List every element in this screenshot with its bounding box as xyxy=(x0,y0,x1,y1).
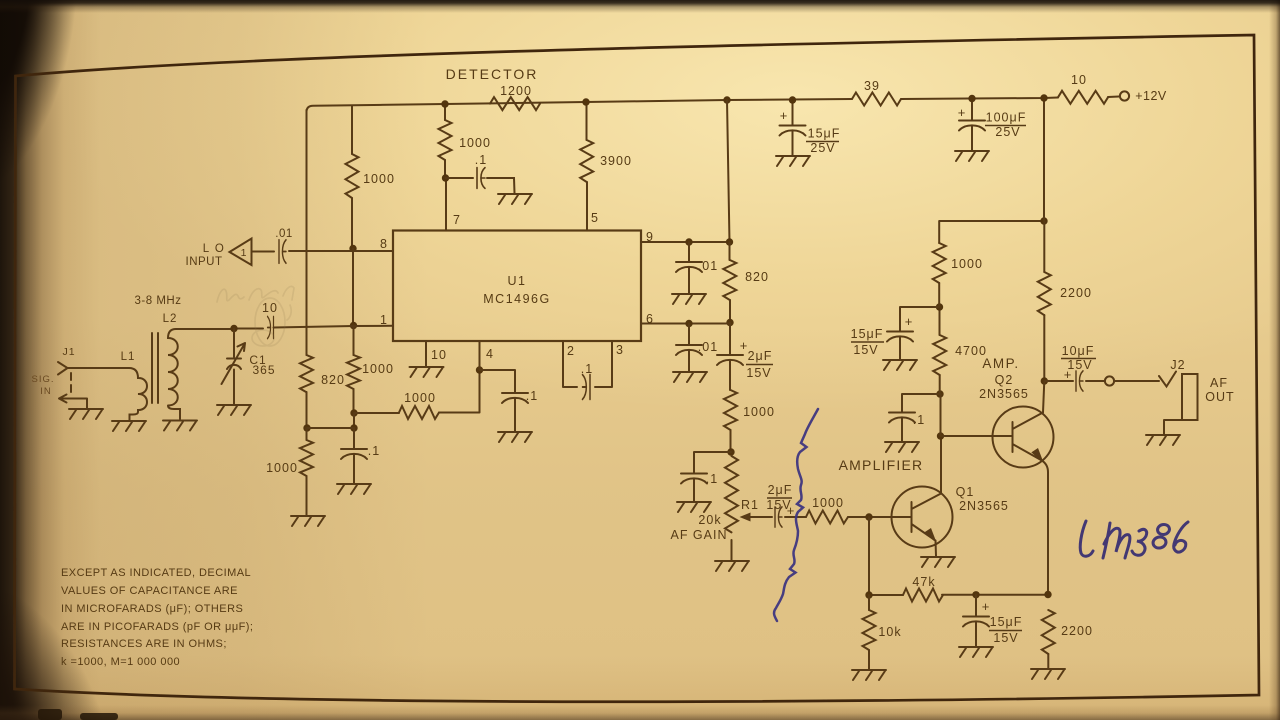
svg-text:2μF: 2μF xyxy=(768,483,793,497)
svg-text:+: + xyxy=(787,503,796,518)
capacitor .1 (pin 7 bypass) xyxy=(477,168,485,189)
node xyxy=(968,95,975,102)
wire to pin 8 xyxy=(289,250,393,252)
svg-text:+: + xyxy=(958,105,967,120)
wire pin 2 / pin 3 bracket xyxy=(563,341,612,387)
pencil annotations (faint) xyxy=(217,286,294,346)
svg-text:.1: .1 xyxy=(706,472,718,486)
node xyxy=(789,96,796,103)
svg-text:820: 820 xyxy=(321,373,345,387)
svg-text:RESISTANCES ARE IN OHMS;: RESISTANCES ARE IN OHMS; xyxy=(61,638,227,650)
resistor 10 xyxy=(1058,91,1108,104)
wire pin4 xyxy=(480,341,516,393)
capacitor .01 (LO coupling) xyxy=(279,240,286,263)
svg-text:6: 6 xyxy=(646,312,654,326)
node xyxy=(865,591,872,598)
svg-text:L2: L2 xyxy=(163,313,178,325)
svg-text:.01: .01 xyxy=(275,228,293,240)
capacitor .1 (Q1 collector) xyxy=(889,413,915,423)
capacitor .01 (pin 9 bypass) xyxy=(676,262,702,272)
wire to .1 cap xyxy=(694,452,731,473)
svg-text:AMPLIFIER: AMPLIFIER xyxy=(839,457,924,473)
wire: bus drop to detector bias column xyxy=(306,110,308,355)
wire to .1 cap xyxy=(446,177,474,179)
ground (Q1 emitter) xyxy=(921,557,955,567)
triangle LO input buffer xyxy=(230,239,252,266)
op-amp U1 MC1496G box xyxy=(393,231,641,342)
svg-text:R1: R1 xyxy=(741,498,759,512)
svg-text:10: 10 xyxy=(1071,73,1087,87)
svg-text:1000: 1000 xyxy=(266,461,298,475)
wire to .1 (Q1 collector bypass) xyxy=(902,394,940,412)
svg-text:47k: 47k xyxy=(912,575,935,589)
wire: bus to pin 8 column xyxy=(351,106,353,248)
ground xyxy=(955,151,989,161)
svg-text:+: + xyxy=(982,599,991,614)
svg-text:100μF: 100μF xyxy=(986,111,1027,125)
node xyxy=(350,322,357,329)
node xyxy=(685,320,692,327)
capacitor C1 365 variable xyxy=(227,329,241,405)
svg-text:25V: 25V xyxy=(995,125,1020,139)
wire Q2 collector to 10uF xyxy=(1044,380,1073,382)
resistor 1000 (horizontal to pin 4) xyxy=(399,406,439,419)
node xyxy=(582,98,589,105)
wire Q2 base xyxy=(941,435,1013,437)
svg-text:1000: 1000 xyxy=(404,391,436,405)
node 4700 bottom xyxy=(936,390,943,397)
node xyxy=(350,424,357,431)
resistor 2200 (Q2 emitter) xyxy=(1042,610,1055,654)
wire pin 10 xyxy=(425,341,427,366)
wire to Q1 base xyxy=(848,516,911,518)
node Q2 collector xyxy=(1041,377,1048,384)
svg-text:ARE IN PICOFARADS (pF OR μμF);: ARE IN PICOFARADS (pF OR μμF); xyxy=(61,621,253,633)
svg-text:IN MICROFARADS (μF); OTHERS: IN MICROFARADS (μF); OTHERS xyxy=(61,603,243,615)
svg-text:L O: L O xyxy=(203,243,226,255)
ground xyxy=(883,360,917,370)
wire to 15uF xyxy=(900,307,940,331)
ground xyxy=(677,502,711,512)
svg-text:1000: 1000 xyxy=(362,362,394,376)
wire pin 6 xyxy=(641,323,730,325)
svg-text:39: 39 xyxy=(864,79,880,93)
node pin4 xyxy=(476,366,483,373)
ground (J1) xyxy=(69,409,103,419)
svg-text:J2: J2 xyxy=(1170,358,1185,372)
svg-text:AMP.: AMP. xyxy=(982,356,1019,371)
C1 arrow xyxy=(222,343,246,384)
resistor 820 (pin 9) xyxy=(723,260,736,300)
svg-text:1: 1 xyxy=(380,313,388,327)
svg-text:SIG.: SIG. xyxy=(31,374,54,385)
svg-text:10μF: 10μF xyxy=(1062,344,1095,358)
svg-text:.1: .1 xyxy=(368,444,380,458)
resistor 47k (feedback) xyxy=(903,589,943,602)
resistor 1000 (pin 7 bias) xyxy=(439,120,452,160)
transistor Q1 2N3565 xyxy=(892,487,953,548)
svg-text:820: 820 xyxy=(745,270,769,284)
resistor 1000 (pin1 to AF node) xyxy=(347,355,360,389)
ground xyxy=(959,647,993,657)
node pin6 xyxy=(726,319,733,326)
svg-text:15μF: 15μF xyxy=(990,615,1023,629)
svg-text:IN: IN xyxy=(40,386,52,397)
svg-text:3900: 3900 xyxy=(600,154,632,168)
wire 47k row xyxy=(869,594,1048,596)
capacitor 10uF 15V (output coupling) xyxy=(1076,371,1083,391)
ground xyxy=(673,372,707,382)
capacitor 2uF 15V (AF coupling) xyxy=(717,355,743,365)
svg-text:1200: 1200 xyxy=(500,84,532,98)
svg-text:7: 7 xyxy=(453,213,461,227)
resistor 820 (detector left bias) xyxy=(300,355,313,392)
wire xyxy=(307,427,354,429)
svg-text:1: 1 xyxy=(241,247,248,259)
svg-text:.1: .1 xyxy=(913,413,925,427)
node xyxy=(1044,591,1051,598)
wire xyxy=(1086,380,1104,382)
svg-text:L1: L1 xyxy=(121,351,136,363)
terminal (output) xyxy=(1105,376,1114,385)
svg-text:MC1496G: MC1496G xyxy=(483,292,550,306)
wire bus drop to amp supply xyxy=(1043,98,1045,221)
inductor L2 secondary xyxy=(168,329,180,419)
node xyxy=(972,591,979,598)
transistor Q2 2N3565 xyxy=(993,407,1054,468)
svg-text:365: 365 xyxy=(252,363,275,377)
R1 wiper arrow xyxy=(749,516,772,518)
handwritten LM386 xyxy=(1080,521,1188,558)
svg-text:15μF: 15μF xyxy=(851,327,884,341)
node C1 xyxy=(230,325,237,332)
bottom page edge marks xyxy=(38,709,118,720)
resistor 1200 (detector load) xyxy=(490,97,540,110)
wire xyxy=(354,370,480,413)
svg-text:1000: 1000 xyxy=(951,257,983,271)
svg-text:.1: .1 xyxy=(526,389,538,403)
svg-text:15V: 15V xyxy=(746,366,771,380)
schematic note text xyxy=(61,567,253,668)
svg-text:EXCEPT AS INDICATED, DECIMAL: EXCEPT AS INDICATED, DECIMAL xyxy=(61,567,251,579)
wire xyxy=(307,392,355,428)
capacitor .1 (pin 4 bypass) xyxy=(502,393,528,403)
ground (2200) xyxy=(1031,669,1065,679)
node Q1 collector / Q2 base xyxy=(937,432,944,439)
svg-text:4: 4 xyxy=(486,347,494,361)
svg-text:Q2: Q2 xyxy=(995,373,1014,387)
svg-text:5: 5 xyxy=(591,211,599,225)
potentiometer R1 20k AF GAIN xyxy=(725,456,738,532)
resistor 1000 (bus to pin8) xyxy=(346,154,359,198)
svg-text:10k: 10k xyxy=(878,625,901,639)
ground (J2) xyxy=(1146,435,1180,445)
node xyxy=(349,245,356,252)
jack J1 sleeve dashed xyxy=(70,373,72,395)
svg-text:15V: 15V xyxy=(853,343,878,357)
ground (R1) xyxy=(715,561,749,571)
capacitor 100uF 25V (supply filter) xyxy=(959,121,985,131)
resistor 1000 (decoupling feed) xyxy=(933,243,946,283)
ground xyxy=(672,294,706,304)
ground xyxy=(498,432,532,442)
wire pin 7 xyxy=(445,160,446,231)
svg-text:2μF: 2μF xyxy=(748,349,773,363)
svg-text:2N3565: 2N3565 xyxy=(959,499,1009,513)
svg-text:.1: .1 xyxy=(475,153,487,167)
svg-text:.01: .01 xyxy=(698,340,718,354)
svg-text:Q1: Q1 xyxy=(956,485,975,499)
ground xyxy=(498,194,532,204)
svg-text:25V: 25V xyxy=(810,141,835,155)
svg-text:.01: .01 xyxy=(698,259,718,273)
wire pin 9 xyxy=(641,241,730,243)
svg-text:8: 8 xyxy=(380,237,388,251)
node R1 top xyxy=(727,448,734,455)
jack J2 tip contact xyxy=(1159,372,1176,387)
svg-text:3-8 MHz: 3-8 MHz xyxy=(135,295,182,307)
wire pin 1 row xyxy=(274,326,394,328)
wire Q1 base node down xyxy=(868,517,870,595)
svg-text:J1: J1 xyxy=(62,346,75,358)
terminal +12V xyxy=(1120,91,1129,100)
svg-text:3: 3 xyxy=(616,343,624,357)
ground (pin 10) xyxy=(410,367,444,377)
svg-text:+12V: +12V xyxy=(1135,89,1167,103)
capacitor .01 (pin 6 bypass) xyxy=(676,345,702,355)
jack J1 sleeve arrow xyxy=(59,395,87,409)
svg-text:AF GAIN: AF GAIN xyxy=(670,528,727,542)
svg-text:15V: 15V xyxy=(993,631,1018,645)
capacitor 15uF 15V (emitter bypass) xyxy=(963,617,989,627)
svg-text:10: 10 xyxy=(262,301,278,315)
wire: +12V supply bus (top) xyxy=(307,97,1120,113)
svg-text:2: 2 xyxy=(567,344,575,358)
node xyxy=(685,238,692,245)
resistor 3900 xyxy=(580,140,593,182)
capacitor .1 (left AF bypass) xyxy=(341,449,367,459)
svg-text:1000: 1000 xyxy=(363,172,395,186)
node xyxy=(441,100,448,107)
svg-text:+: + xyxy=(1064,367,1073,382)
wire bus down to pin 9 xyxy=(727,100,730,242)
capacitor 15uF 25V (supply filter) xyxy=(780,126,806,136)
svg-text:+: + xyxy=(780,108,789,123)
svg-text:INPUT: INPUT xyxy=(186,256,223,268)
svg-text:15μF: 15μF xyxy=(808,127,841,141)
svg-text:1000: 1000 xyxy=(743,405,775,419)
ground (L2) xyxy=(163,421,197,431)
node xyxy=(303,424,310,431)
svg-text:1000: 1000 xyxy=(459,136,491,150)
node xyxy=(350,409,357,416)
jack J2 sleeve wire xyxy=(1164,420,1182,434)
resistor 2200 (Q2 collector load) xyxy=(1038,272,1051,315)
capacitor 2uF 15V (AF gain coupling) xyxy=(775,507,782,527)
inductor L1 primary xyxy=(67,368,147,420)
wire LO input xyxy=(252,251,275,253)
svg-text:DETECTOR: DETECTOR xyxy=(446,66,539,82)
svg-text:2200: 2200 xyxy=(1060,286,1092,300)
handwritten blue squiggle xyxy=(774,409,818,621)
svg-text:.1: .1 xyxy=(581,362,593,376)
resistor 10k (bias) xyxy=(863,610,876,650)
resistor 1000 (to ground, left) xyxy=(300,440,313,476)
svg-text:+: + xyxy=(905,314,914,329)
capacitor 15uF 15V (decoupling) xyxy=(887,332,913,342)
node 1000/4700 xyxy=(936,303,943,310)
svg-text:U1: U1 xyxy=(508,274,527,288)
node xyxy=(1040,94,1047,101)
resistor 1000 (Q1 base) xyxy=(806,511,848,524)
wire xyxy=(487,178,515,193)
transformer core xyxy=(152,333,158,403)
wire pin 5 / resistor 3900 xyxy=(586,102,589,231)
node supply elbow xyxy=(1040,217,1047,224)
node Q1 base xyxy=(865,513,872,520)
jack J1 tip xyxy=(58,362,68,375)
svg-text:AF: AF xyxy=(1210,376,1228,390)
ground xyxy=(885,442,919,452)
capacitor .1 (R1 top bypass) xyxy=(681,474,707,484)
resistor 1000 (to R1) xyxy=(724,390,737,430)
svg-text:9: 9 xyxy=(646,230,654,244)
svg-text:1000: 1000 xyxy=(812,496,844,510)
wire L2 to cap xyxy=(176,328,263,331)
capacitor .1 (pins 2-3) xyxy=(583,375,591,400)
ground xyxy=(337,484,371,494)
svg-text:10: 10 xyxy=(431,348,447,362)
wire to J2 xyxy=(1115,380,1160,382)
svg-text:20k: 20k xyxy=(698,513,721,527)
node pin9/820 xyxy=(726,238,733,245)
svg-text:VALUES OF CAPACITANCE ARE: VALUES OF CAPACITANCE ARE xyxy=(61,585,238,597)
svg-text:OUT: OUT xyxy=(1205,390,1234,404)
svg-text:2200: 2200 xyxy=(1061,624,1093,638)
resistor 39 xyxy=(852,93,901,106)
capacitor 10 (L2 to pin 1) xyxy=(268,316,274,338)
ground (10k) xyxy=(852,670,886,680)
wire pin8 to pin1 tie xyxy=(352,249,354,326)
jack J2 body xyxy=(1182,374,1198,420)
svg-text:2N3565: 2N3565 xyxy=(979,387,1029,401)
node pin7/cap xyxy=(442,174,449,181)
ground (C1) xyxy=(217,405,251,415)
node bus/pin9 column xyxy=(723,96,730,103)
ground (L1) xyxy=(112,421,146,431)
svg-text:k =1000, M=1 000 000: k =1000, M=1 000 000 xyxy=(61,656,180,668)
resistor 4700 (Q1 load) xyxy=(933,335,946,375)
ground xyxy=(776,156,810,166)
ground xyxy=(291,516,325,526)
wire xyxy=(785,516,806,518)
